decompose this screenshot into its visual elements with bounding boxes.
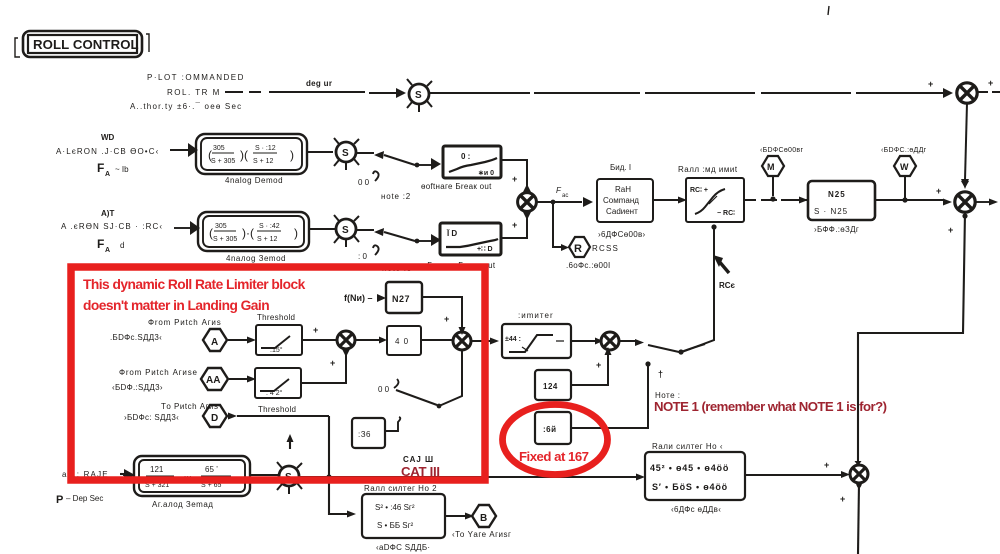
svg-text:САЈ Ш: САЈ Ш xyxy=(403,455,434,464)
wire C2 down to bottom summer C3 xyxy=(855,212,968,466)
svg-text:Ї D: Ї D xyxy=(446,229,457,238)
wire roll cmd limit to N25 xyxy=(744,199,808,201)
node f(N) label xyxy=(344,293,386,303)
svg-text:›БDФс: SДД3‹: ›БDФс: SДД3‹ xyxy=(124,413,179,422)
svg-text:WD: WD xyxy=(101,133,115,142)
svg-text:›6ДФСө00в›: ›6ДФСө00в› xyxy=(598,230,646,239)
block software breakout 1 xyxy=(421,146,501,191)
svg-text:AA: AA xyxy=(206,375,220,386)
svg-text:+: + xyxy=(928,79,933,89)
svg-text:S · :12: S · :12 xyxy=(255,145,276,152)
svg-text:A)T: A)T xyxy=(101,209,114,218)
svg-text:‹То Yаге Агиsг: ‹То Yаге Агиsг xyxy=(452,530,511,539)
svg-text:B: B xyxy=(480,513,487,524)
svg-text:Бид. І: Бид. І xyxy=(610,163,631,172)
wire roll filter 2 to B hexagon xyxy=(445,515,471,517)
block roll cmd limit xyxy=(678,165,744,222)
svg-text:F: F xyxy=(97,237,104,251)
hexagon R (RCSS) xyxy=(566,237,619,270)
svg-text:D: D xyxy=(211,413,218,424)
S demodulator (trim) xyxy=(407,79,432,112)
svg-text:: 0: : 0 xyxy=(358,252,367,261)
svg-text:ԁ: ԁ xyxy=(120,241,124,250)
svg-text:+: + xyxy=(988,78,993,88)
red annotation ellipse around 167 xyxy=(503,405,608,475)
svg-text:W: W xyxy=(900,162,909,172)
wire branch to RCSS hexagon xyxy=(553,204,561,247)
block roll filter no 1 xyxy=(645,442,745,514)
block analog demod 2 xyxy=(198,212,309,263)
svg-text:P·LOT :OMMANDED: P·LOT :OMMANDED xyxy=(147,73,245,82)
svg-text::З6: :З6 xyxy=(358,430,371,439)
S demodulator row1 xyxy=(334,138,359,170)
svg-text:0 :: 0 : xyxy=(461,152,470,161)
svg-text:Аг.алод Зеmад: Аг.алод Зеmад xyxy=(152,500,213,509)
svg-text:A..thor.ty ±6·.¯ оеө Sес: A..thor.ty ±6·.¯ оеө Sес xyxy=(130,102,242,111)
svg-text:0 0: 0 0 xyxy=(378,385,390,394)
svg-text:‹БDФС.:өДДг: ‹БDФС.:өДДг xyxy=(881,147,927,154)
hexagon W xyxy=(881,147,927,203)
hexagon A xyxy=(203,329,227,351)
switch 0.0 below B2 xyxy=(378,350,462,408)
svg-text:A: A xyxy=(105,171,110,178)
summing junction A (stick force sum) xyxy=(518,184,537,220)
svg-text::6й: :6й xyxy=(543,425,557,434)
wire B2 to limiter xyxy=(471,338,499,345)
wire N27 to summer B2 xyxy=(422,297,466,335)
node ROLL RATE label xyxy=(56,470,128,506)
svg-text:: 4 2°: : 4 2° xyxy=(266,389,283,397)
svg-text:›БФФ.:өЗДг: ›БФФ.:өЗДг xyxy=(814,225,859,234)
summing junction B1 xyxy=(337,331,355,357)
S demodulator row3 xyxy=(277,434,302,494)
svg-text:F: F xyxy=(97,161,104,175)
svg-text:~ Ib: ~ Ib xyxy=(115,165,129,174)
block threshold2 4.2deg xyxy=(255,368,301,414)
svg-text:45² • ө45 • ө4ӧӧ: 45² • ө45 • ө4ӧӧ xyxy=(650,463,729,473)
svg-text:S + 305: S + 305 xyxy=(213,236,237,243)
svg-text:S + 12: S + 12 xyxy=(257,236,278,243)
svg-text:S + 12: S + 12 xyxy=(253,158,274,165)
svg-text:N25: N25 xyxy=(828,190,846,199)
block 167 (fixed limit) xyxy=(535,412,571,444)
svg-text:+: + xyxy=(824,460,829,470)
wire N25 to summer C2 xyxy=(875,186,952,206)
wire C1 down to C2 xyxy=(962,103,969,189)
summing junction C2 xyxy=(948,179,998,235)
svg-text:RаН: RаН xyxy=(615,185,631,194)
svg-text:f(Nи) –: f(Nи) – xyxy=(344,293,373,303)
svg-text:4 0: 4 0 xyxy=(395,337,409,346)
hexagon D xyxy=(203,405,227,427)
block gain 4.0 xyxy=(387,326,421,355)
block threshold1 15deg xyxy=(256,313,302,355)
block N25 lag filter xyxy=(808,181,875,234)
svg-text:+: + xyxy=(330,358,335,368)
svg-text:.БDФс.SДД3‹: .БDФс.SДД3‹ xyxy=(110,333,162,342)
svg-text:Саdиент: Саdиент xyxy=(606,207,638,216)
svg-text:Threshold: Threshold xyxy=(257,313,295,322)
wire breakout1 to summer A xyxy=(501,160,527,186)
svg-text:doesn't matter in Landing Gain: doesn't matter in Landing Gain xyxy=(83,298,269,313)
svg-text:N27: N27 xyxy=(392,294,410,304)
wire demod3 to S3 xyxy=(250,474,278,476)
svg-text:+∷ D: +∷ D xyxy=(477,246,493,253)
switch after D1 (dynamic vs fixed 167) xyxy=(619,339,705,367)
summing junction B2 xyxy=(453,332,471,350)
block 136 xyxy=(352,417,400,448)
block analog demod 1 (stick force filter) xyxy=(196,134,307,185)
svg-text:+: + xyxy=(512,174,517,184)
title box ROLL CONTROL xyxy=(15,31,149,57)
svg-text:− RC∶: − RC∶ xyxy=(717,210,735,217)
svg-text:±44 :: ±44 : xyxy=(505,336,521,343)
summing junction C1 top-right xyxy=(928,78,1000,103)
svg-text:CAT III: CAT III xyxy=(401,464,440,479)
svg-text:)(: )( xyxy=(240,148,248,162)
svg-text:S · :42: S · :42 xyxy=(259,223,280,230)
svg-text:4naлog Зemod: 4naлog Зemod xyxy=(226,254,286,263)
wire junction up to D and down to roll filter 2 xyxy=(329,416,356,518)
svg-text:S: S xyxy=(415,90,422,101)
svg-text:Rалл :мд имиt: Rалл :мд имиt xyxy=(678,165,738,174)
node FWD AILERON STICK FORCE label xyxy=(56,133,159,178)
svg-text:Фrom Pиtch Агиs: Фrom Pиtch Агиs xyxy=(148,318,222,327)
svg-text:Fixed at 167: Fixed at 167 xyxy=(519,449,589,464)
svg-text:121: 121 xyxy=(150,465,164,474)
svg-text:A: A xyxy=(105,247,110,254)
wire threshold1 to summer B1 xyxy=(302,325,337,340)
node To Pitch Axis (D) label xyxy=(124,402,218,422)
wire 4.0 to summer B2 xyxy=(421,339,453,341)
svg-text:Threshold: Threshold xyxy=(258,405,296,414)
wire gradient to roll cmd limit xyxy=(653,199,678,201)
node From Pitch Axis (A) label xyxy=(110,318,222,342)
svg-text:This dynamic Roll Rate Limiter: This dynamic Roll Rate Limiter block xyxy=(83,277,306,292)
svg-text:өoftнаге Бrеaк out: өoftнаге Бrеaк out xyxy=(421,182,492,191)
stray tick top xyxy=(828,6,829,15)
svg-text:ac: ac xyxy=(562,193,568,199)
svg-text:S: S xyxy=(342,225,349,236)
node Note 1 xyxy=(655,369,681,400)
node PILOT COMMANDED ROLL TRIM label xyxy=(130,73,245,111)
wire 167 to switch contact xyxy=(571,366,648,428)
svg-text:Фrom Pиtch Агиsе: Фrom Pиtch Агиsе xyxy=(119,368,198,377)
svg-text:S² • :46 Sг²: S² • :46 Sг² xyxy=(375,503,415,512)
red annotation rectangle (roll rate limiter region) xyxy=(71,267,485,480)
svg-text:+: + xyxy=(840,494,845,504)
svg-text:S · N25: S · N25 xyxy=(814,207,848,216)
svg-text:.6оФс.:ө00І: .6оФс.:ө00І xyxy=(566,261,611,270)
wire into analog demod 3 xyxy=(123,474,134,476)
summing junction D1 xyxy=(601,332,619,350)
svg-text:+: + xyxy=(313,325,318,335)
wire into analog demod 2 xyxy=(174,227,190,229)
svg-text:+: + xyxy=(936,186,941,196)
svg-text:NOTE 1 (remember what NOTE 1 i: NOTE 1 (remember what NOTE 1 is for?) xyxy=(654,399,887,414)
svg-text::иmитer: :иmитer xyxy=(518,311,554,320)
svg-text:A .єRӨN SЈ·CВ · :RC‹: A .єRӨN SЈ·CВ · :RC‹ xyxy=(61,222,163,231)
block roll command gradient xyxy=(597,163,653,239)
svg-text:P: P xyxy=(56,494,63,506)
wire roll rate bus to roll filter 1 xyxy=(299,474,645,481)
block 124 xyxy=(535,370,571,400)
wire limiter to summer D1 xyxy=(571,340,595,342)
wire B1 to 4.0 block xyxy=(355,337,387,344)
summing junction C3 xyxy=(824,460,868,554)
S demodulator row2 xyxy=(334,215,359,247)
svg-text:R: R xyxy=(574,243,582,255)
svg-text:ROL. TR M: ROL. TR M xyxy=(167,88,221,97)
svg-text:‹аDФС SДДБ·: ‹аDФС SДДБ· xyxy=(376,543,430,552)
svg-text:ноte :2: ноte :2 xyxy=(381,192,411,201)
svg-text:– Deр Sec: – Deр Sec xyxy=(66,494,103,503)
block roll filter no 2 xyxy=(362,484,445,552)
switch row1 xyxy=(356,151,441,201)
block analog demod 3 (roll rate) xyxy=(134,456,250,509)
wire S demod to top-right summer xyxy=(430,92,944,94)
svg-text:4nalog Demod: 4nalog Demod xyxy=(225,176,283,185)
svg-text:+: + xyxy=(948,225,953,235)
wire breakout2 to summer A xyxy=(501,211,527,238)
svg-text:RCSS: RCSS xyxy=(592,244,619,253)
svg-text:Rалл силтeг Но 2: Rалл силтeг Но 2 xyxy=(364,484,437,493)
switch row2 xyxy=(356,228,441,273)
svg-text:RC∶ +: RC∶ + xyxy=(690,187,708,194)
svg-text:†: † xyxy=(658,369,663,379)
svg-text:124: 124 xyxy=(543,382,558,391)
wire 124 to D1 bottom xyxy=(571,347,612,385)
svg-text:S: S xyxy=(342,148,349,159)
wire summer A to roll command gradient xyxy=(536,200,591,205)
svg-text:S • ББ Sг²: S • ББ Sг² xyxy=(377,521,414,530)
svg-text:305: 305 xyxy=(215,223,227,230)
wire A to threshold1 xyxy=(228,337,256,344)
svg-text:RCє: RCє xyxy=(719,281,736,290)
svg-text:deg ur: deg ur xyxy=(306,79,332,88)
block software breakout 2 xyxy=(420,223,501,270)
svg-text:305: 305 xyxy=(213,145,225,152)
wire D from junction (roll rate to pitch axis) xyxy=(228,413,329,420)
svg-text:+: + xyxy=(512,220,517,230)
svg-text:‹6ДФс өДДв‹: ‹6ДФс өДДв‹ xyxy=(671,505,721,514)
wire AA to threshold2 xyxy=(229,376,256,383)
svg-text:Сомmанд: Сомmанд xyxy=(603,196,639,205)
block N27 gain xyxy=(386,282,422,313)
svg-text:S′ • БӧS • ө4ӧӧ: S′ • БӧS • ө4ӧӧ xyxy=(652,482,728,492)
node AFT AILERON STICK FORCE label xyxy=(61,209,163,254)
svg-text:S + 305: S + 305 xyxy=(211,158,235,165)
svg-text:+: + xyxy=(444,314,449,324)
svg-text:M: M xyxy=(767,162,775,172)
svg-text:‹БDФ.:SДД3›: ‹БDФ.:SДД3› xyxy=(112,383,163,392)
svg-text:0 0: 0 0 xyxy=(358,178,370,187)
svg-text:A: A xyxy=(211,337,218,348)
block limiter +-44.1 xyxy=(502,311,571,358)
svg-text:A·LєRON .Ј·CВ ӨO•C‹: A·LєRON .Ј·CВ ӨO•C‹ xyxy=(56,147,159,156)
wire demod1 to S1 xyxy=(307,151,333,153)
wire threshold2 to B1 bottom xyxy=(301,349,346,383)
hexagon AA xyxy=(201,368,228,390)
svg-text:ROLL CONTROL: ROLL CONTROL xyxy=(33,37,139,52)
svg-text::15°: :15° xyxy=(270,346,283,354)
wire demod2 to S2 xyxy=(309,228,335,230)
svg-text:): ) xyxy=(294,226,298,240)
node Fac xyxy=(556,186,568,199)
svg-text:+: + xyxy=(596,360,601,370)
svg-text:‹БDФСө00вг: ‹БDФСө00вг xyxy=(760,147,803,154)
wire roll filter 1 to summer C3 xyxy=(745,474,844,476)
svg-text:): ) xyxy=(290,148,294,162)
svg-text:)·(: )·( xyxy=(242,226,254,240)
hexagon B xyxy=(452,505,511,539)
svg-text:Rали силтег Но ‹: Rали силтег Но ‹ xyxy=(652,442,723,451)
hexagon M xyxy=(760,147,803,202)
wire RCL input vertical xyxy=(682,224,736,352)
svg-text:65 ’: 65 ’ xyxy=(205,465,218,474)
node From Pitch Axis (AA) label xyxy=(112,368,198,392)
svg-text:∗и 0: ∗и 0 xyxy=(478,170,494,177)
wire roll trim to S demod xyxy=(225,79,404,93)
wire into analog demod 1 xyxy=(170,149,188,151)
